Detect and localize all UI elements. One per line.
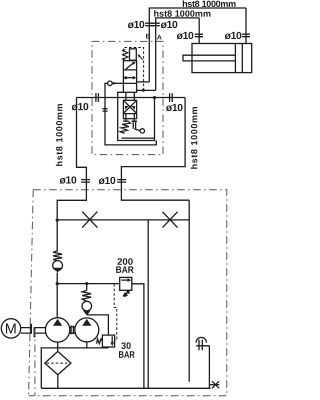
unloading valve RV2 30bar body: [102, 335, 114, 347]
valve B port link: [137, 81, 150, 83]
valve lever ball: [140, 129, 144, 133]
header line with test points: [57, 219, 189, 221]
valve A port link: [137, 89, 156, 91]
svg-text:ø10: ø10: [161, 20, 178, 31]
cylinder C1 piston: [235, 44, 242, 73]
valve return spring: [120, 122, 130, 134]
junction dot riser1/header: [56, 219, 59, 222]
motor M circle: [1, 319, 20, 338]
boundary extra segment: [34, 329, 36, 396]
svg-text:ø10: ø10: [166, 103, 183, 114]
return drop right of valve: [121, 98, 189, 201]
valve crossed arrows: [124, 101, 136, 112]
tick pipe A: [151, 23, 159, 26]
junction dot dashed-A: [142, 89, 145, 92]
svg-text:hst8 1000mm: hst8 1000mm: [182, 0, 236, 9]
check valve CV1 seat: [54, 268, 61, 273]
relief valve RV1 internal arrow: [121, 279, 128, 281]
P riser from pump (line 1): [57, 98, 86, 251]
shaft coupling-pump1: [35, 328, 46, 334]
cylinder port line cap-side: [245, 8, 247, 44]
coupling claws: [31, 324, 35, 338]
pipe A top run: [156, 18, 200, 91]
check valve CV2 ball: [82, 301, 92, 311]
svg-text:hst8 1000mm: hst8 1000mm: [54, 103, 64, 166]
tank drop line right: [188, 200, 190, 382]
tick riser 2: [117, 180, 126, 183]
svg-text:B: B: [146, 34, 151, 41]
tick main line right: [170, 93, 173, 102]
tick main line left: [96, 93, 99, 102]
valve gauge arrow: [112, 82, 123, 84]
valve lever link: [133, 121, 140, 130]
valve lower body: [123, 100, 136, 118]
return line to tank (from header): [147, 220, 149, 388]
valve pilot boundary dashed: [123, 48, 143, 91]
valve section2 arrow: [124, 76, 127, 79]
svg-text:A: A: [157, 35, 162, 42]
tick pipe B: [145, 23, 153, 26]
unloading valve RV2 spring: [97, 339, 103, 344]
valve port stubs upper: [126, 92, 134, 100]
power unit boundary (lower dash-dot): [29, 190, 227, 396]
breather pipe: [208, 346, 210, 389]
valve bottom stubs plugged: [123, 114, 136, 122]
plugged port X right: [163, 212, 178, 228]
unloading valve RV2 outlet: [107, 346, 109, 349]
breather cap: [196, 340, 209, 351]
coupling bars: [103, 109, 108, 111]
svg-text:BAR: BAR: [119, 349, 135, 360]
cylinder C1 body: [192, 44, 252, 73]
plugged port X left: [82, 212, 97, 228]
plugged tank port stub: [209, 384, 219, 386]
filter F1 body: [45, 351, 71, 374]
relief valve RV1 spring: [123, 290, 130, 295]
pump2 circle: [75, 318, 99, 342]
relief valve RV1 outlet: [132, 284, 144, 389]
valve pilot box: [130, 49, 137, 60]
check valve CV1 ball: [53, 261, 63, 271]
suction manifold: [41, 348, 108, 388]
gauge line with coupling: [105, 83, 156, 145]
pressure branch line: [57, 283, 119, 285]
filter F1 outlet to tank: [57, 375, 59, 389]
unloading valve RV2 internal arrow: [111, 336, 113, 343]
svg-text:hst8 1000mm: hst8 1000mm: [153, 9, 211, 19]
svg-text:ø10: ø10: [99, 176, 116, 187]
tick cylinder port cap-side: [242, 34, 250, 37]
shaft motor-pump: [21, 328, 31, 334]
svg-text:BAR: BAR: [116, 264, 135, 275]
svg-text:ø10: ø10: [60, 175, 77, 186]
inter-pump shaft: [70, 326, 75, 335]
pump2 branch to unloader: [87, 315, 109, 335]
svg-text:ø10: ø10: [72, 102, 89, 113]
svg-text:ø10: ø10: [177, 31, 194, 42]
check valve CV2 spring: [82, 290, 91, 301]
valve gauge port circle: [108, 81, 113, 86]
valve section1 arrow: [126, 63, 134, 69]
junction dot P branch left: [56, 282, 59, 285]
pump1 flow triangle: [53, 319, 62, 326]
line CV1 to junction: [56, 273, 58, 318]
pump1 circle: [45, 318, 69, 342]
cylinder C1 rod: [183, 55, 235, 61]
valve tank loop inner line: [122, 137, 155, 139]
check valve CV1 spring: [53, 251, 62, 261]
pump2 flow triangle: [82, 319, 91, 326]
main pressure line P: [77, 97, 186, 99]
tick riser 1: [81, 180, 90, 183]
pipe B top run: [149, 8, 246, 82]
filter F1 element: [47, 362, 70, 364]
pump1 suction to filter: [57, 342, 59, 351]
relief valve RV1 200bar body: [120, 277, 132, 290]
svg-text:ø10: ø10: [225, 31, 242, 42]
svg-text:ø10: ø10: [128, 20, 145, 31]
check valve CV2 line: [86, 284, 88, 291]
svg-text:M: M: [5, 321, 17, 337]
manifold boundary box (upper dash-dot): [92, 41, 163, 154]
junction dot P branch CV2: [85, 282, 88, 285]
relief valve RV1 pilot line: [114, 284, 117, 340]
tick cylinder port rod-side: [195, 34, 203, 37]
junction dot loop-main: [153, 96, 156, 99]
relief valve RV1 arrow adjust: [123, 290, 131, 297]
valve pilot arrow: [139, 56, 143, 60]
plugged tank port X: [212, 381, 219, 388]
svg-text:hst8 1000mm: hst8 1000mm: [189, 106, 199, 169]
cylinder port line rod-side: [198, 18, 200, 44]
valve tank loop box: [118, 92, 155, 140]
tank line: [41, 387, 210, 389]
pump2 suction stub: [86, 342, 88, 348]
valve pilot spring: [123, 49, 128, 60]
valve upper body: [123, 61, 136, 93]
check valve CV2 seat: [83, 311, 90, 316]
